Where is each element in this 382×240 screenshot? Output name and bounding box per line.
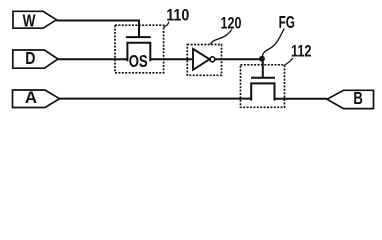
transistor 110 channel and source/drain legs: [127, 43, 150, 61]
transistor 112 gate bar: [251, 77, 275, 79]
svg-text:FG: FG: [279, 12, 295, 32]
wire A to transistor 112: [60, 98, 252, 100]
inverter U120 triangle: [193, 49, 210, 70]
wire inverter to node FG: [215, 58, 260, 60]
transistor 110 gate bar: [126, 36, 151, 38]
transistor 112 channel and source/drain legs: [251, 83, 274, 99]
wire transistor 110 to inverter 120: [150, 58, 193, 60]
dashed box 120: [187, 45, 221, 76]
svg-text:110: 110: [166, 5, 189, 24]
wire W to gate of 110: [57, 21, 140, 38]
dashed box 112: [241, 65, 285, 108]
svg-text:B: B: [353, 88, 363, 108]
transistor 112 gate lead: [262, 60, 264, 79]
svg-text:D: D: [25, 48, 35, 68]
leader 120: [210, 30, 232, 45]
terminal W: [13, 11, 57, 28]
terminal D: [13, 50, 58, 68]
dashed box 110: [115, 25, 164, 73]
svg-text:OS: OS: [129, 51, 148, 71]
svg-text:120: 120: [221, 14, 242, 33]
svg-text:A: A: [25, 88, 37, 107]
leader 110: [164, 22, 169, 29]
svg-text:W: W: [23, 10, 36, 30]
terminal B: [327, 90, 374, 108]
leader FG: [262, 29, 284, 57]
inverter bubble: [210, 57, 215, 62]
wire transistor 112 to B: [275, 98, 328, 100]
svg-text:112: 112: [291, 42, 312, 61]
terminal A: [13, 90, 60, 108]
wire D to transistor 110: [58, 58, 127, 60]
node FG dot: [259, 56, 265, 62]
leader 112: [285, 58, 293, 65]
